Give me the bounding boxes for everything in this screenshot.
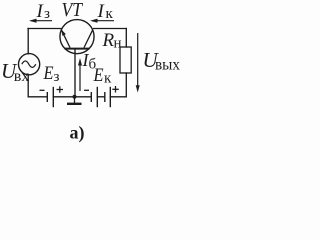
label EЭ (43, 63, 60, 85)
voltage arrow Uвых (136, 33, 140, 93)
minus sign EК (84, 89, 89, 91)
wire left vertical lower (27, 75, 29, 97)
label Uвх (1, 59, 29, 85)
battery EК (91, 87, 110, 107)
label IБ (82, 50, 97, 73)
label VT (62, 0, 84, 21)
resistor RН (120, 47, 131, 73)
svg-text:з: з (54, 69, 60, 85)
svg-text:вх: вх (14, 68, 30, 85)
wire between EК cells (97, 96, 105, 98)
label IК (97, 1, 114, 22)
svg-text:к: к (106, 6, 114, 22)
label EК (93, 65, 112, 87)
ac source G1 (19, 54, 40, 75)
battery EЭ (47, 87, 53, 107)
wire junction to battery EК (75, 96, 91, 98)
wire bottom left (28, 96, 46, 98)
svg-text:н: н (114, 36, 122, 52)
label Uвых (143, 48, 181, 74)
ground (67, 97, 82, 104)
label IЭ (36, 1, 51, 22)
wire left vertical upper (27, 29, 29, 54)
wire emitter top (28, 28, 61, 30)
svg-text:а): а) (70, 123, 85, 144)
wire battery EЭ to junction (54, 96, 75, 98)
wire collector top (94, 28, 127, 30)
wire battery EК to resistor lead (111, 96, 127, 98)
svg-text:вых: вых (155, 57, 180, 74)
svg-text:з: з (44, 6, 50, 22)
junction node (73, 95, 77, 99)
minus sign EЭ (40, 89, 45, 91)
wire resistor bottom lead (125, 73, 127, 97)
svg-text:VT: VT (62, 0, 84, 21)
svg-text:E: E (93, 65, 104, 86)
caption a) (70, 123, 85, 144)
wire base lead (74, 49, 76, 97)
transistor VT (60, 20, 94, 54)
svg-text:E: E (43, 63, 54, 84)
svg-text:к: к (104, 71, 112, 87)
current arrow IК (90, 19, 114, 23)
current arrow IБ (78, 58, 82, 91)
plus sign EК (112, 86, 119, 93)
plus sign EЭ (57, 86, 64, 93)
label RН (102, 30, 122, 52)
current arrow IЭ (29, 19, 52, 23)
wire resistor top lead (125, 29, 127, 48)
